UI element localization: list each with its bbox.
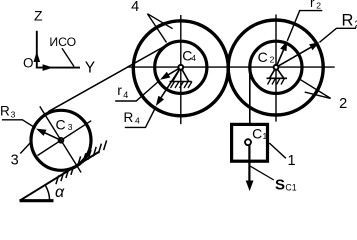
label R4 with leader bbox=[124, 107, 157, 128]
svg-text:S: S bbox=[275, 177, 285, 194]
axis Y line bbox=[36, 67, 80, 69]
svg-text:2: 2 bbox=[339, 96, 347, 112]
svg-text:C: C bbox=[258, 49, 268, 65]
svg-text:4: 4 bbox=[191, 53, 196, 63]
axis Y arrowhead bbox=[43, 64, 54, 71]
svg-text:R: R bbox=[0, 103, 10, 118]
angle alpha arc bbox=[45, 185, 49, 201]
force S_C1 arrow bbox=[246, 145, 254, 191]
svg-text:α: α bbox=[55, 184, 65, 201]
label r2 with leader bbox=[287, 0, 322, 41]
vertical centerline wheel 4 bbox=[180, 15, 182, 124]
wheel 3 circle bbox=[31, 110, 91, 170]
R2 radius arrow bbox=[276, 42, 320, 67]
incline ramp line bbox=[20, 152, 100, 201]
svg-text:R: R bbox=[124, 110, 134, 125]
svg-text:r: r bbox=[310, 0, 315, 10]
svg-text:3: 3 bbox=[68, 122, 73, 132]
block center circle C1 bbox=[245, 139, 251, 145]
label 4 with leaders bbox=[131, 0, 173, 42]
svg-text:2: 2 bbox=[316, 1, 321, 11]
svg-text:Y: Y bbox=[85, 60, 95, 77]
svg-text:3: 3 bbox=[11, 110, 16, 120]
label 3 with leader bbox=[11, 142, 32, 169]
svg-text:C1: C1 bbox=[285, 183, 296, 193]
leader from ИСО bbox=[62, 48, 74, 66]
axis Z arrowhead bbox=[34, 52, 41, 63]
wheel 4 inner circle r4 bbox=[155, 41, 207, 93]
horizontal base line at incline foot bbox=[20, 199, 54, 202]
wheel 3 center dot bbox=[59, 138, 64, 143]
horizontal centerline through C4 and C2 bbox=[127, 66, 335, 68]
label 1 with leader bbox=[269, 143, 295, 169]
label R2 with leader bbox=[320, 12, 357, 43]
svg-text:C: C bbox=[252, 126, 262, 142]
svg-text:4: 4 bbox=[123, 90, 128, 100]
leader to S label bbox=[250, 166, 274, 180]
svg-text:O: O bbox=[23, 55, 34, 70]
rope from wheel 3 to inner pulley of wheel 4 bbox=[48, 42, 172, 111]
wheel 2 inner circle r2 bbox=[250, 41, 302, 93]
svg-text:1: 1 bbox=[288, 153, 296, 169]
vertical centerline wheel 2 bbox=[275, 15, 277, 122]
wheel 2 outer circle R2 bbox=[228, 20, 323, 115]
r4 radius arrow bbox=[160, 67, 181, 79]
rope from inner pulley of wheel 2 down to block 1 bbox=[249, 67, 251, 124]
block 1 square bbox=[232, 124, 268, 161]
svg-text:1: 1 bbox=[263, 131, 268, 141]
svg-text:R: R bbox=[342, 12, 354, 30]
axis Z line bbox=[36, 31, 38, 69]
label R3 with leader bbox=[0, 103, 36, 128]
wheel 4 outer circle R4 bbox=[133, 21, 228, 116]
svg-text:3: 3 bbox=[11, 152, 19, 168]
svg-text:4: 4 bbox=[135, 115, 140, 125]
label 2 with leaders bbox=[299, 79, 347, 112]
R3 radius arrow bbox=[36, 129, 61, 141]
svg-text:C: C bbox=[56, 117, 66, 133]
pivot support of wheel 2 bbox=[267, 65, 288, 85]
svg-text:r: r bbox=[117, 82, 122, 98]
R4 radius arrow bbox=[156, 67, 181, 106]
svg-text:Z: Z bbox=[34, 8, 43, 24]
pivot support of wheel 4 bbox=[170, 65, 193, 88]
svg-text:2: 2 bbox=[270, 55, 275, 65]
incline hatching bbox=[56, 140, 107, 184]
wheel 3 centerline along incline bbox=[38, 121, 92, 156]
r2 radius arrow bbox=[276, 41, 287, 68]
svg-text:4: 4 bbox=[131, 0, 139, 15]
wheel 3 centerline perpendicular to incline bbox=[40, 106, 81, 172]
label r4 with leader bbox=[115, 81, 159, 102]
svg-text:ИСО: ИСО bbox=[49, 35, 76, 49]
